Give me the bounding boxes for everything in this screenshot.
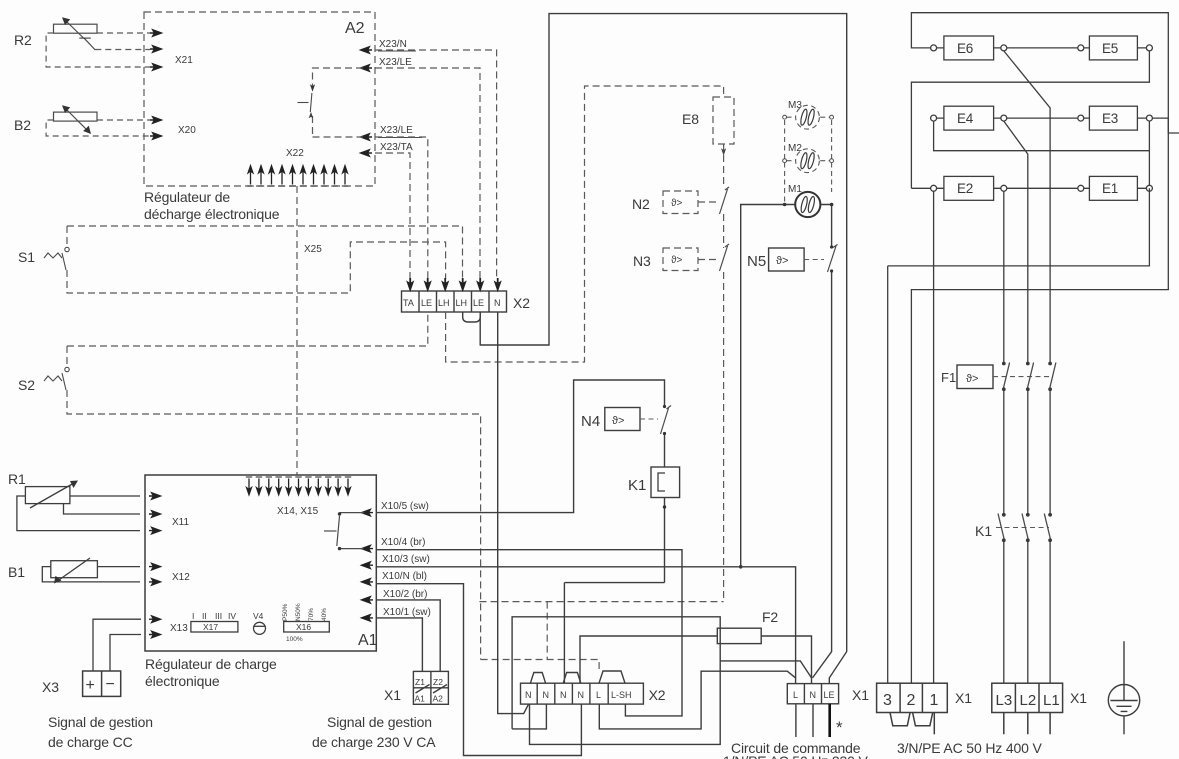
svg-text:X10/3 (sw): X10/3 (sw)	[382, 554, 430, 565]
svg-text:X1: X1	[955, 690, 972, 706]
svg-text:−: −	[106, 676, 115, 693]
svg-text:N: N	[543, 690, 550, 700]
svg-text:L1: L1	[1043, 692, 1060, 709]
svg-text:+: +	[86, 677, 95, 694]
svg-text:N5: N5	[747, 253, 766, 270]
svg-text:N3: N3	[633, 253, 651, 269]
svg-text:L: L	[596, 690, 601, 700]
svg-text:E4: E4	[957, 111, 974, 126]
svg-text:L: L	[793, 690, 798, 700]
svg-text:1/N/PE AC 50 Hz 230 V: 1/N/PE AC 50 Hz 230 V	[723, 753, 869, 759]
svg-text:1: 1	[930, 692, 939, 709]
svg-text:N: N	[578, 690, 585, 700]
svg-text:X23/LE: X23/LE	[379, 57, 412, 68]
svg-text:M1: M1	[788, 184, 802, 195]
svg-text:X10/5 (sw): X10/5 (sw)	[381, 501, 429, 512]
svg-text:E6: E6	[957, 41, 973, 56]
svg-text:X1: X1	[1070, 690, 1087, 706]
svg-text:X25: X25	[304, 244, 322, 255]
svg-text:de charge 230 V CA: de charge 230 V CA	[312, 734, 436, 750]
svg-text:L2: L2	[1020, 692, 1037, 709]
svg-text:X2: X2	[513, 295, 530, 311]
svg-text:II: II	[202, 611, 207, 621]
svg-text:V4: V4	[253, 611, 264, 621]
svg-text:3: 3	[883, 692, 892, 709]
svg-text:N: N	[560, 690, 567, 700]
svg-text:3/N/PE AC 50 Hz 400 V: 3/N/PE AC 50 Hz 400 V	[897, 740, 1043, 756]
svg-text:X22: X22	[286, 148, 304, 159]
svg-text:ϑ>: ϑ>	[671, 198, 682, 209]
svg-text:N50%: N50%	[295, 603, 302, 621]
svg-text:X10/2 (br): X10/2 (br)	[383, 589, 427, 600]
svg-text:M2: M2	[788, 143, 802, 154]
svg-text:X11: X11	[172, 517, 189, 528]
svg-text:A1: A1	[358, 632, 378, 649]
svg-text:2: 2	[907, 692, 916, 709]
svg-text:ϑ>: ϑ>	[612, 415, 624, 427]
svg-text:K1: K1	[975, 523, 992, 539]
svg-text:LE: LE	[473, 298, 484, 308]
svg-text:S2: S2	[18, 377, 35, 393]
svg-text:Z1: Z1	[415, 677, 425, 687]
svg-text:X14, X15: X14, X15	[277, 506, 319, 517]
svg-text:Signal de gestion: Signal de gestion	[48, 714, 153, 730]
svg-text:de charge CC: de charge CC	[48, 734, 133, 750]
svg-text:LH: LH	[456, 298, 468, 308]
svg-text:LH: LH	[438, 298, 450, 308]
svg-text:A1: A1	[415, 694, 426, 704]
svg-text:N: N	[810, 690, 817, 700]
svg-text:E2: E2	[957, 181, 973, 196]
svg-text:LE: LE	[421, 298, 432, 308]
svg-text:S1: S1	[18, 249, 35, 265]
svg-text:L-SH: L-SH	[611, 690, 632, 700]
svg-text:N: N	[494, 298, 501, 308]
svg-text:B2: B2	[14, 117, 31, 133]
svg-text:100%: 100%	[286, 636, 303, 643]
svg-text:I: I	[192, 611, 194, 621]
svg-text:X23/N: X23/N	[379, 39, 407, 50]
svg-text:M3: M3	[788, 100, 802, 111]
svg-text:K1: K1	[628, 477, 646, 494]
svg-text:Z2: Z2	[433, 677, 443, 687]
svg-text:X10/N (bl): X10/N (bl)	[382, 571, 427, 582]
svg-text:X3: X3	[42, 679, 59, 695]
svg-text:X23/TA: X23/TA	[380, 142, 413, 153]
svg-text:X10/4 (br): X10/4 (br)	[381, 537, 425, 548]
svg-text:F2: F2	[762, 609, 778, 625]
svg-text:IV: IV	[228, 611, 236, 621]
svg-text:X17: X17	[203, 622, 218, 632]
svg-text:A2: A2	[433, 694, 444, 704]
svg-text:X13: X13	[170, 623, 188, 634]
svg-text:R1: R1	[8, 471, 26, 487]
svg-text:E8: E8	[682, 111, 699, 127]
svg-text:B1: B1	[8, 564, 25, 580]
svg-text:N2: N2	[632, 196, 650, 212]
svg-text:40%: 40%	[321, 608, 328, 621]
svg-text:X1: X1	[384, 687, 401, 703]
svg-text:Régulateur de: Régulateur de	[144, 189, 230, 205]
svg-text:III: III	[215, 611, 222, 621]
svg-text:X16: X16	[296, 622, 311, 632]
svg-text:X10/1 (sw): X10/1 (sw)	[383, 607, 431, 618]
svg-text:A2: A2	[345, 20, 365, 37]
svg-text:électronique: électronique	[145, 673, 220, 689]
svg-text:E3: E3	[1102, 111, 1118, 126]
svg-text:X23/LE: X23/LE	[380, 125, 413, 136]
svg-text:*: *	[836, 718, 843, 737]
svg-text:P50%: P50%	[282, 603, 289, 621]
svg-text:ϑ>: ϑ>	[966, 373, 978, 385]
svg-text:X20: X20	[178, 125, 196, 136]
svg-text:ϑ>: ϑ>	[776, 255, 788, 267]
svg-text:F1: F1	[941, 370, 956, 385]
svg-text:L3: L3	[996, 692, 1013, 709]
svg-text:X21: X21	[175, 55, 193, 66]
svg-text:X2: X2	[649, 687, 666, 703]
svg-text:TA: TA	[403, 298, 414, 308]
svg-text:X1: X1	[852, 687, 869, 703]
svg-text:décharge électronique: décharge électronique	[144, 206, 280, 222]
svg-text:N: N	[525, 690, 532, 700]
svg-text:N4: N4	[581, 413, 600, 430]
svg-text:R2: R2	[14, 32, 32, 48]
svg-text:LE: LE	[824, 690, 835, 700]
svg-text:70%: 70%	[308, 608, 315, 621]
svg-text:E1: E1	[1102, 181, 1118, 196]
svg-text:X12: X12	[172, 572, 190, 583]
svg-text:ϑ>: ϑ>	[671, 255, 682, 266]
svg-text:E5: E5	[1102, 41, 1118, 56]
svg-text:Régulateur de charge: Régulateur de charge	[145, 656, 277, 672]
svg-text:Signal de gestion: Signal de gestion	[327, 714, 432, 730]
